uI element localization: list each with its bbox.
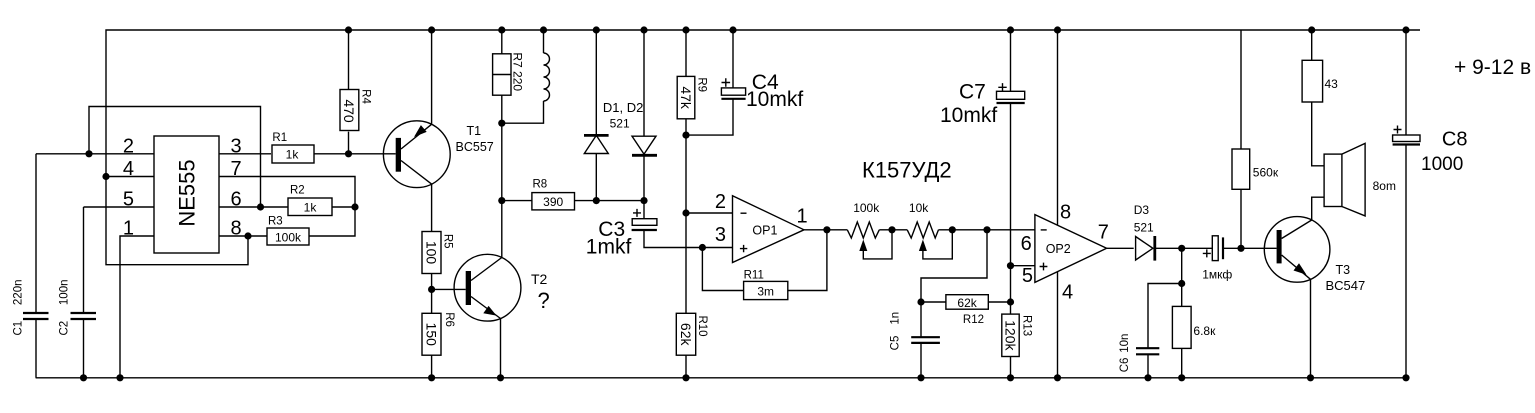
svg-text:К157УД2: К157УД2 xyxy=(862,158,952,183)
svg-text:43: 43 xyxy=(1325,77,1339,91)
svg-text:R8: R8 xyxy=(533,179,548,191)
svg-text:4: 4 xyxy=(123,158,134,180)
svg-text:R12: R12 xyxy=(963,314,984,326)
svg-text:3: 3 xyxy=(715,224,726,246)
svg-text:390: 390 xyxy=(543,195,563,209)
svg-text:5: 5 xyxy=(1022,265,1033,287)
svg-text:560к: 560к xyxy=(1253,166,1279,180)
svg-text:3: 3 xyxy=(231,135,242,157)
svg-text:6: 6 xyxy=(1021,233,1032,255)
svg-text:D1, D2: D1, D2 xyxy=(603,100,643,115)
svg-text:10k: 10k xyxy=(909,201,929,215)
svg-text:T3: T3 xyxy=(1336,263,1351,277)
svg-text:7: 7 xyxy=(1098,222,1109,244)
svg-text:C8: C8 xyxy=(1442,129,1468,151)
svg-text:R11: R11 xyxy=(744,270,764,282)
svg-text:220n: 220n xyxy=(13,280,25,306)
svg-text:8om: 8om xyxy=(1373,179,1396,193)
svg-text:R7 220: R7 220 xyxy=(511,52,525,91)
svg-text:1000: 1000 xyxy=(1421,154,1463,175)
svg-text:10mkf: 10mkf xyxy=(940,104,997,127)
svg-text:R4: R4 xyxy=(360,89,372,104)
svg-text:1k: 1k xyxy=(286,148,300,162)
svg-text:BC547: BC547 xyxy=(1326,278,1366,293)
svg-text:D3: D3 xyxy=(1134,203,1150,217)
svg-text:62k: 62k xyxy=(678,323,694,347)
svg-text:R5: R5 xyxy=(442,234,454,249)
svg-text:?: ? xyxy=(538,288,550,313)
svg-text:10mkf: 10mkf xyxy=(746,88,803,111)
svg-text:8: 8 xyxy=(1060,201,1071,223)
svg-text:470: 470 xyxy=(341,99,357,123)
svg-text:R9: R9 xyxy=(696,77,708,92)
svg-text:4: 4 xyxy=(1062,282,1073,304)
svg-text:T1: T1 xyxy=(467,124,482,138)
svg-text:100k: 100k xyxy=(853,201,880,215)
svg-text:R1: R1 xyxy=(272,132,287,144)
svg-text:47k: 47k xyxy=(678,86,694,110)
svg-text:521: 521 xyxy=(1134,221,1154,235)
svg-text:+ 9-12 в: + 9-12 в xyxy=(1454,56,1531,79)
svg-text:3m: 3m xyxy=(757,285,774,299)
svg-text:150: 150 xyxy=(424,323,440,347)
svg-text:R2: R2 xyxy=(290,185,305,197)
svg-text:BC557: BC557 xyxy=(456,140,494,154)
svg-text:T2: T2 xyxy=(531,271,548,287)
svg-text:6.8к: 6.8к xyxy=(1193,324,1216,338)
svg-text:100k: 100k xyxy=(275,231,302,245)
svg-text:62k: 62k xyxy=(957,296,977,310)
svg-text:521: 521 xyxy=(610,117,630,131)
svg-text:1: 1 xyxy=(797,206,808,228)
svg-text:C5: C5 xyxy=(890,336,902,351)
svg-text:OP2: OP2 xyxy=(1046,242,1071,256)
svg-text:100n: 100n xyxy=(59,280,71,306)
svg-text:1мкф: 1мкф xyxy=(1202,268,1232,282)
svg-text:NE555: NE555 xyxy=(175,159,200,226)
svg-text:R3: R3 xyxy=(268,216,283,228)
svg-text:C1: C1 xyxy=(13,321,25,336)
svg-text:OP1: OP1 xyxy=(752,224,777,238)
svg-text:R6: R6 xyxy=(443,312,455,327)
svg-text:2: 2 xyxy=(715,191,726,213)
svg-text:6: 6 xyxy=(231,189,242,211)
svg-text:R10: R10 xyxy=(696,315,708,336)
svg-text:C7: C7 xyxy=(959,81,986,104)
svg-text:5: 5 xyxy=(123,189,134,211)
svg-text:2: 2 xyxy=(123,135,134,157)
svg-text:10n: 10n xyxy=(1119,334,1131,353)
svg-text:C6: C6 xyxy=(1119,358,1131,373)
svg-text:1n: 1n xyxy=(890,312,902,325)
svg-text:8: 8 xyxy=(231,218,242,240)
svg-text:7: 7 xyxy=(231,158,242,180)
svg-text:1: 1 xyxy=(123,218,134,240)
svg-text:120k: 120k xyxy=(1003,320,1019,351)
svg-text:C2: C2 xyxy=(59,321,71,336)
svg-text:100: 100 xyxy=(424,241,440,265)
svg-text:1k: 1k xyxy=(304,201,318,215)
svg-text:R13: R13 xyxy=(1021,315,1033,336)
svg-text:1mkf: 1mkf xyxy=(586,236,632,259)
